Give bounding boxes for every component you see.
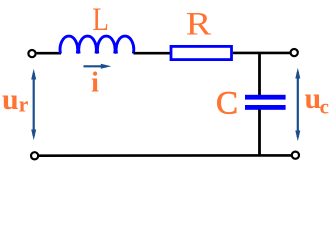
inductor L (coil) <box>60 36 134 53</box>
svg-text:L: L <box>92 2 109 38</box>
resistor R (body) <box>171 46 232 59</box>
voltage arrow u_c (double-headed) <box>295 68 300 141</box>
node: junction, wire down to capacitor <box>258 53 261 96</box>
terminal (top-right) <box>291 49 298 56</box>
wire: top-left terminal to inductor <box>37 52 61 55</box>
capacitor C (top plate) <box>245 95 286 100</box>
wire: capacitor to bottom wire <box>258 109 261 156</box>
voltage arrow u_r (double-headed) <box>31 69 36 140</box>
terminal (top-left) <box>28 50 35 57</box>
svg-text:u: u <box>2 83 19 116</box>
terminal (bottom-right) <box>292 152 299 159</box>
svg-text:i: i <box>91 68 99 99</box>
terminal (bottom-left) <box>31 152 38 159</box>
capacitor C (bottom plate) <box>245 105 286 110</box>
svg-text:c: c <box>320 95 329 119</box>
wire: resistor to top-right terminal <box>233 52 290 55</box>
svg-text:r: r <box>19 91 29 116</box>
svg-text:R: R <box>186 6 212 42</box>
bottom wire <box>39 154 291 157</box>
wire: inductor to resistor <box>134 52 172 55</box>
svg-text:C: C <box>216 86 238 122</box>
current arrow i <box>84 64 112 69</box>
